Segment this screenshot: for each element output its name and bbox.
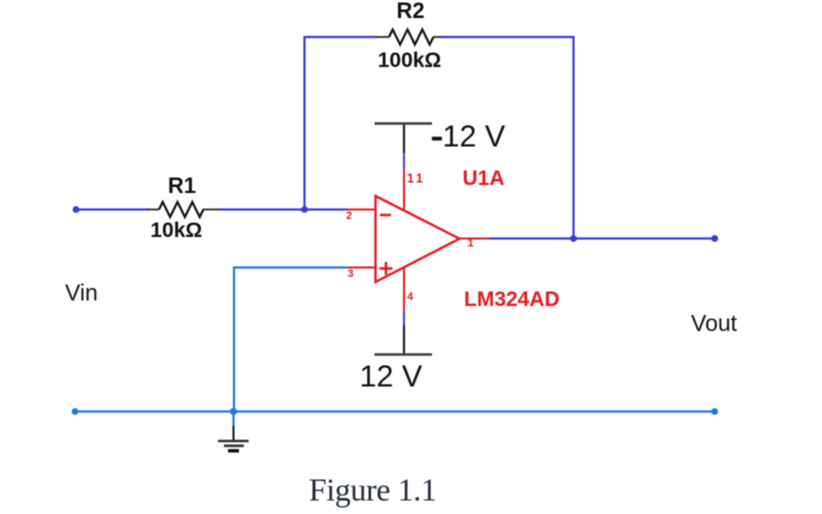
svg-text:Figure 1.1: Figure 1.1	[309, 472, 437, 508]
svg-text:1: 1	[468, 238, 474, 250]
svg-text:4: 4	[407, 291, 414, 303]
svg-text:Vout: Vout	[691, 310, 738, 336]
svg-text:U1A: U1A	[463, 167, 505, 190]
svg-text:12 V: 12 V	[360, 359, 423, 393]
svg-text:R1: R1	[168, 173, 196, 198]
svg-text:3: 3	[348, 268, 354, 280]
svg-text:R2: R2	[397, 0, 425, 23]
svg-text:2: 2	[346, 210, 352, 222]
svg-text:Vin: Vin	[65, 280, 98, 306]
svg-text:12 V: 12 V	[443, 120, 506, 154]
svg-text:100kΩ: 100kΩ	[378, 49, 442, 72]
svg-text:LM324AD: LM324AD	[464, 288, 560, 311]
svg-text:11: 11	[407, 171, 425, 185]
svg-text:10kΩ: 10kΩ	[150, 219, 202, 242]
